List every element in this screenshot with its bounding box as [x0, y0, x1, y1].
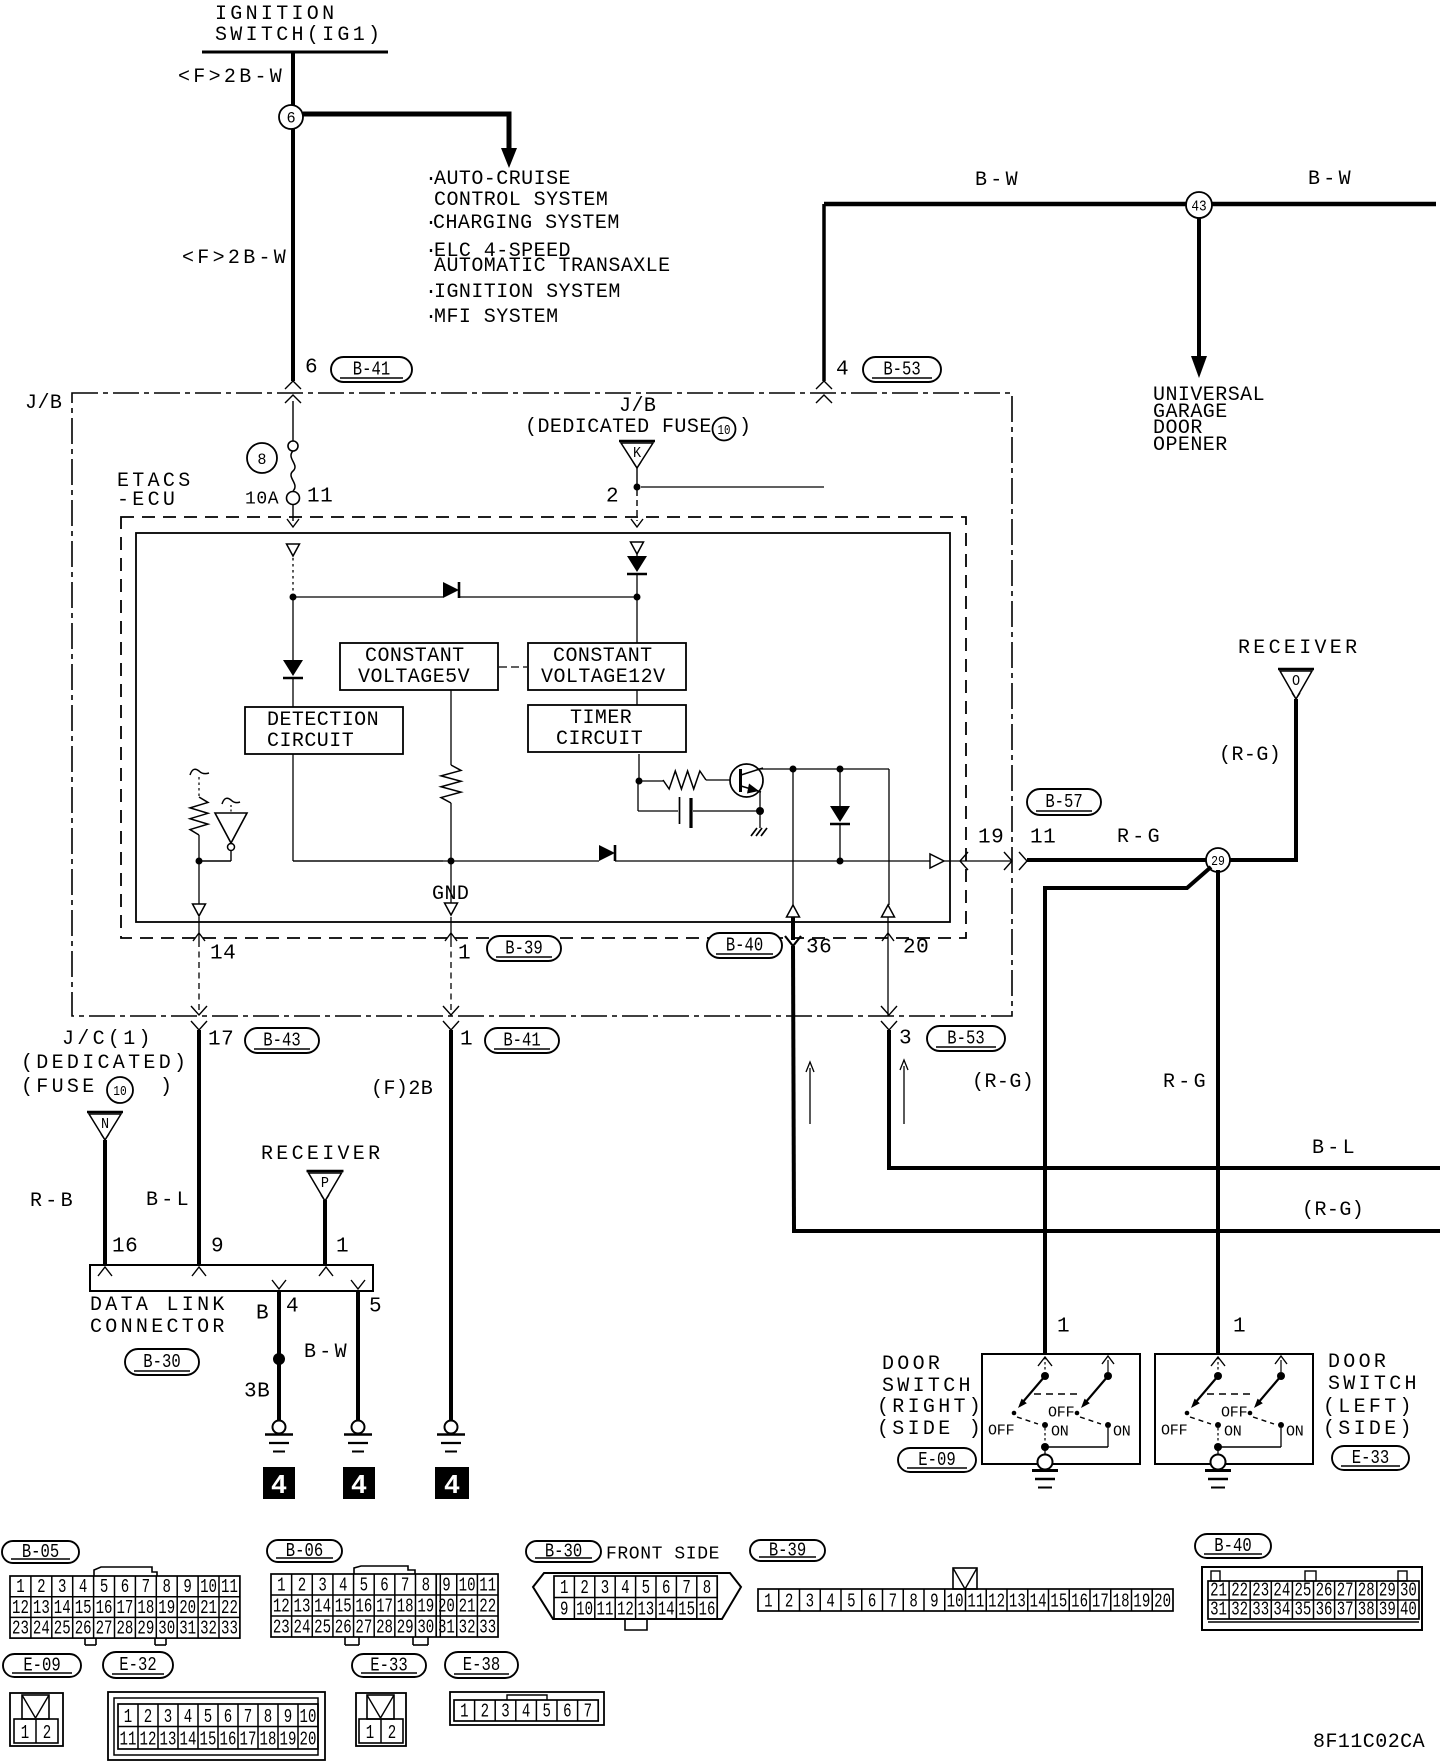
svg-text:20: 20 — [179, 1598, 196, 1620]
resistor R1 with curl — [190, 769, 209, 861]
door switch left side — [1155, 1354, 1313, 1488]
svg-text:9: 9 — [211, 1235, 224, 1258]
svg-text:1: 1 — [277, 1576, 285, 1598]
ignition switch (IG1) label — [202, 3, 388, 52]
wire DLC4 to ground — [277, 1291, 281, 1421]
connector label E-38 — [445, 1652, 518, 1678]
connector B-30 pinout — [533, 1573, 741, 1630]
svg-text:16: 16 — [220, 1730, 237, 1752]
wire R-G bottom run — [792, 1229, 1440, 1231]
wire label <F>2B-W upper — [178, 66, 285, 89]
svg-text:): ) — [739, 416, 751, 439]
svg-text:1: 1 — [458, 942, 471, 965]
svg-text:J/B: J/B — [619, 395, 656, 418]
connector label B-06 — [267, 1540, 342, 1563]
ECU inner box — [136, 533, 950, 922]
connector B-39 key — [953, 1568, 977, 1589]
svg-text:5: 5 — [847, 1592, 855, 1614]
svg-text:22: 22 — [479, 1597, 496, 1619]
junction block J/B box — [72, 393, 1012, 1016]
svg-text:OFF: OFF — [1048, 1404, 1074, 1421]
pin 17 label — [208, 1028, 234, 1051]
svg-text:29: 29 — [397, 1618, 414, 1640]
svg-text:TIMER: TIMER — [570, 707, 632, 730]
J/B dedicated fuse label right — [525, 395, 751, 441]
svg-text:9: 9 — [930, 1592, 938, 1614]
svg-text:11: 11 — [120, 1730, 137, 1752]
pin 1 wire — [445, 917, 457, 1010]
wire DLC5 to ground — [356, 1291, 360, 1421]
wire label B-W right — [1308, 168, 1354, 191]
svg-text:E-33: E-33 — [370, 1656, 407, 1677]
svg-text:2: 2 — [606, 485, 619, 508]
svg-text:4: 4 — [184, 1707, 192, 1729]
svg-text:7: 7 — [244, 1707, 252, 1729]
svg-text:15: 15 — [200, 1730, 217, 1752]
universal garage door opener label — [1153, 384, 1265, 457]
svg-text:MFI SYSTEM: MFI SYSTEM — [434, 306, 559, 329]
receiver O fuse triangle — [1278, 669, 1314, 699]
svg-text:34: 34 — [1273, 1600, 1290, 1622]
wire label R-G — [1117, 826, 1163, 849]
node 43 splice — [1186, 192, 1212, 218]
wire resistor to bus — [450, 803, 452, 861]
svg-text:16: 16 — [112, 1235, 138, 1258]
svg-text:2: 2 — [580, 1578, 588, 1600]
ground hatch — [751, 828, 767, 836]
svg-text:5: 5 — [542, 1702, 550, 1724]
svg-text:17: 17 — [1092, 1592, 1109, 1614]
svg-text:3: 3 — [601, 1578, 609, 1600]
pin 14 label — [210, 942, 236, 965]
svg-text:4: 4 — [444, 1472, 460, 1502]
drawing number — [1313, 1731, 1425, 1754]
svg-text:16: 16 — [699, 1600, 716, 1622]
direction arrow — [900, 1060, 908, 1124]
svg-text:11: 11 — [479, 1576, 496, 1598]
svg-text:CHARGING SYSTEM: CHARGING SYSTEM — [433, 212, 620, 235]
front side label — [606, 1544, 720, 1564]
svg-text:DETECTION: DETECTION — [267, 709, 379, 732]
svg-text:(R-G): (R-G) — [1302, 1199, 1364, 1222]
wire label B-W left — [975, 169, 1021, 192]
svg-text:J/B: J/B — [25, 392, 62, 415]
wire label (R-G) receiver — [1219, 744, 1281, 767]
svg-text:ON: ON — [1224, 1423, 1242, 1440]
connector label B-05 — [2, 1541, 79, 1564]
data link connector label — [90, 1294, 228, 1339]
resistor R3 — [638, 771, 731, 789]
connector label B-41 top — [331, 357, 412, 382]
ETACS-ECU label — [117, 470, 194, 512]
svg-text:1: 1 — [560, 1578, 568, 1600]
svg-text:CONSTANT: CONSTANT — [365, 645, 465, 668]
svg-text:38: 38 — [1358, 1600, 1375, 1622]
svg-text:B-W: B-W — [304, 1341, 350, 1364]
svg-text:16: 16 — [1071, 1592, 1088, 1614]
svg-text:DOOR: DOOR — [882, 1353, 943, 1376]
svg-text:7: 7 — [584, 1702, 592, 1724]
svg-text:J/C(1): J/C(1) — [62, 1028, 154, 1051]
svg-text:1: 1 — [460, 1702, 468, 1724]
pin 20 wire — [882, 917, 894, 1016]
dotted wire — [292, 558, 294, 597]
svg-text:12: 12 — [12, 1598, 29, 1620]
ground G2 — [344, 1421, 372, 1452]
svg-text:E-09: E-09 — [23, 1656, 60, 1677]
wire label (F)2B — [371, 1078, 433, 1101]
svg-text:RECEIVER: RECEIVER — [1238, 637, 1360, 660]
constant voltage 5V box — [340, 643, 498, 690]
wire label B-L — [1312, 1137, 1358, 1160]
svg-text:6: 6 — [662, 1578, 670, 1600]
svg-text:18: 18 — [260, 1730, 277, 1752]
svg-text:21: 21 — [200, 1598, 217, 1620]
pin 1 label — [1057, 1315, 1070, 1338]
wire to border — [944, 860, 1012, 862]
node junction — [290, 594, 297, 601]
svg-text:RECEIVER: RECEIVER — [261, 1143, 383, 1166]
svg-text:(RIGHT): (RIGHT) — [877, 1396, 984, 1419]
pin 3 label — [899, 1027, 912, 1050]
svg-text:20: 20 — [1154, 1592, 1171, 1614]
svg-text:14: 14 — [314, 1597, 331, 1619]
wire label B-L left — [146, 1189, 192, 1212]
svg-text:1: 1 — [124, 1707, 132, 1729]
pin 14 wire — [193, 917, 205, 1010]
wire detection to bus — [292, 754, 294, 861]
GND pin triangle — [445, 861, 458, 915]
svg-text:13: 13 — [33, 1598, 50, 1620]
svg-text:23: 23 — [12, 1619, 29, 1641]
svg-text:4: 4 — [826, 1592, 834, 1614]
node junction — [448, 858, 455, 865]
ECU pin 14 output triangle — [193, 861, 206, 916]
svg-text:B: B — [256, 1302, 269, 1325]
svg-text:4: 4 — [271, 1472, 287, 1502]
svg-text:12: 12 — [140, 1730, 157, 1752]
connector label B-39 pinout lbl — [750, 1540, 825, 1562]
crossing at J/B border — [1004, 852, 1027, 870]
ground G3 — [437, 1421, 465, 1452]
svg-text:6: 6 — [121, 1577, 129, 1599]
wire timer to node — [638, 754, 640, 781]
svg-text:20: 20 — [300, 1730, 317, 1752]
svg-text:OPENER: OPENER — [1153, 434, 1228, 457]
svg-text:20: 20 — [438, 1597, 455, 1619]
svg-text:1: 1 — [460, 1028, 473, 1051]
wire pin20 vertical — [888, 769, 890, 905]
svg-text:19: 19 — [158, 1598, 175, 1620]
svg-text:29: 29 — [137, 1619, 154, 1641]
svg-text:13: 13 — [1009, 1592, 1026, 1614]
svg-text:27: 27 — [355, 1618, 372, 1640]
wire B-W horizontal top — [824, 202, 1436, 207]
svg-text:10: 10 — [947, 1592, 964, 1614]
svg-text:3: 3 — [501, 1702, 509, 1724]
svg-text:VOLTAGE5V: VOLTAGE5V — [358, 666, 470, 689]
wire to diode — [293, 596, 443, 598]
svg-text:R-B: R-B — [30, 1190, 76, 1213]
svg-text:32: 32 — [459, 1618, 476, 1640]
svg-text:31: 31 — [1210, 1600, 1227, 1622]
svg-text:IGNITION SYSTEM: IGNITION SYSTEM — [434, 281, 621, 304]
pin 6 label — [305, 356, 318, 379]
direction arrow — [806, 1062, 814, 1124]
svg-text:11: 11 — [221, 1577, 238, 1599]
svg-text:CIRCUIT: CIRCUIT — [556, 728, 643, 751]
svg-text:O: O — [1292, 673, 1300, 690]
output arrow hollow — [930, 854, 944, 868]
svg-text:8: 8 — [163, 1577, 171, 1599]
pin 1 B-41 exit crossing — [443, 1006, 459, 1030]
svg-text:16: 16 — [96, 1598, 113, 1620]
svg-text:(R-G): (R-G) — [972, 1071, 1034, 1094]
door switch left side labels — [1323, 1351, 1420, 1441]
wire 17 to DLC pin9 — [197, 1030, 201, 1265]
wire diode to node — [459, 596, 637, 598]
svg-text:B-06: B-06 — [286, 1542, 323, 1563]
svg-text:2: 2 — [144, 1707, 152, 1729]
diode D4 down — [830, 769, 850, 861]
svg-text:N: N — [101, 1116, 109, 1133]
GND label — [432, 883, 469, 906]
svg-text:12: 12 — [617, 1600, 634, 1622]
svg-text:3: 3 — [58, 1577, 66, 1599]
svg-text:36: 36 — [806, 936, 832, 959]
pin 17 exit crossing — [191, 1006, 207, 1030]
data link connector box — [90, 1265, 373, 1291]
pin 4 crossing into J/B — [816, 381, 832, 403]
ECU pin 20 triangle — [882, 905, 895, 917]
wire B-41 to ground — [449, 1030, 453, 1421]
svg-text:31: 31 — [179, 1619, 196, 1641]
svg-text:12: 12 — [273, 1597, 290, 1619]
wire R-G thick to node 29 — [1027, 858, 1206, 862]
svg-text:B-39: B-39 — [769, 1541, 806, 1562]
dedicated fuse K — [606, 441, 824, 527]
connector label B-40 — [707, 933, 782, 958]
svg-text:10A: 10A — [245, 489, 279, 509]
connector E-32 pinout — [108, 1692, 325, 1760]
pin 4 label — [836, 358, 849, 381]
pin 1 label — [460, 1028, 473, 1051]
svg-text:6: 6 — [563, 1702, 571, 1724]
svg-text:32: 32 — [1231, 1600, 1248, 1622]
ground G1 — [265, 1421, 293, 1452]
svg-text:OFF: OFF — [988, 1422, 1014, 1439]
svg-text:AUTOMATIC TRANSAXLE: AUTOMATIC TRANSAXLE — [434, 255, 671, 278]
connector label B-30 — [125, 1349, 199, 1375]
node junction — [196, 858, 203, 865]
svg-text:VOLTAGE12V: VOLTAGE12V — [541, 666, 666, 689]
connector label B-40 doors — [1195, 1534, 1271, 1558]
svg-text:7: 7 — [142, 1577, 150, 1599]
ground ref 4 — [343, 1467, 375, 1502]
svg-text:19: 19 — [417, 1597, 434, 1619]
connector label B-30 front — [526, 1541, 601, 1563]
wire B-W corner down to B-53 — [822, 204, 826, 381]
svg-text:7: 7 — [682, 1578, 690, 1600]
wire label R-G mid — [1163, 1071, 1209, 1094]
svg-text:1: 1 — [16, 1577, 24, 1599]
wire node29 to receiver corner — [1230, 699, 1296, 862]
wire label (R-G) mid — [972, 1071, 1034, 1094]
svg-text:15: 15 — [75, 1598, 92, 1620]
svg-text:IGNITION: IGNITION — [215, 3, 337, 26]
wire P to DLC pin1 — [323, 1200, 327, 1265]
svg-text:17: 17 — [208, 1028, 234, 1051]
svg-text:8: 8 — [422, 1576, 430, 1598]
svg-text:40: 40 — [1400, 1600, 1417, 1622]
receiver fuse P — [307, 1171, 344, 1201]
svg-text:26: 26 — [75, 1619, 92, 1641]
pin 1 label — [336, 1235, 349, 1258]
svg-text:17: 17 — [117, 1598, 134, 1620]
svg-text:ON: ON — [1113, 1423, 1131, 1440]
svg-text:27: 27 — [96, 1619, 113, 1641]
connector label E-33 — [1332, 1446, 1409, 1470]
connector label B-43 — [245, 1028, 319, 1053]
wire branch to systems arrow — [303, 114, 517, 168]
ETACS-ECU dashed box — [121, 517, 966, 938]
svg-text:17: 17 — [376, 1597, 393, 1619]
pin 1 label — [458, 942, 471, 965]
svg-text:(DEDICATED FUSE: (DEDICATED FUSE — [525, 416, 712, 439]
svg-text:(DEDICATED): (DEDICATED) — [21, 1052, 189, 1075]
ground ref 4 — [435, 1467, 469, 1502]
svg-text:B-W: B-W — [975, 169, 1021, 192]
connector E-38 pinout — [450, 1692, 604, 1725]
svg-text:CIRCUIT: CIRCUIT — [267, 730, 354, 753]
wire label (R-G) bottom — [1302, 1199, 1364, 1222]
pin 3 exit crossing — [881, 1006, 897, 1030]
svg-text:33: 33 — [221, 1619, 238, 1641]
svg-text:<F>2B-W: <F>2B-W — [182, 247, 289, 270]
svg-text:33: 33 — [479, 1618, 496, 1640]
ECU pin 11 input triangle — [287, 544, 300, 556]
svg-text:1: 1 — [764, 1592, 772, 1614]
connector E-33 pinout — [356, 1693, 406, 1746]
svg-text:35: 35 — [1295, 1600, 1312, 1622]
svg-text:6: 6 — [224, 1707, 232, 1729]
svg-text:3: 3 — [164, 1707, 172, 1729]
wire to 12V box — [636, 575, 638, 643]
svg-text:DATA LINK: DATA LINK — [90, 1294, 228, 1317]
svg-text:B-05: B-05 — [22, 1543, 59, 1564]
ECU pin 36 triangle — [787, 905, 800, 917]
wire down to garage opener — [1191, 218, 1207, 378]
timer circuit box — [528, 705, 686, 752]
svg-text:31: 31 — [438, 1618, 455, 1640]
svg-text:(FUSE: (FUSE — [21, 1076, 98, 1099]
pin 36 label — [806, 936, 832, 959]
receiver label — [1238, 637, 1360, 660]
pin 16 label — [112, 1235, 138, 1258]
svg-text:29: 29 — [1211, 854, 1225, 869]
connector label B-39 — [487, 936, 561, 961]
svg-text:19: 19 — [978, 826, 1004, 849]
comparator T1 triangle — [199, 798, 247, 861]
svg-text:B-L: B-L — [146, 1189, 192, 1212]
dedicated fuse N — [87, 1112, 123, 1140]
svg-text:11: 11 — [1030, 826, 1056, 849]
svg-text:15: 15 — [678, 1600, 695, 1622]
J/C(1) dedicated fuse label — [21, 1028, 189, 1103]
svg-text:ON: ON — [1286, 1423, 1304, 1440]
wire label 3B — [244, 1380, 270, 1403]
diode D1 right — [443, 582, 459, 598]
svg-text:ON: ON — [1051, 1423, 1069, 1440]
svg-text:FRONT SIDE: FRONT SIDE — [606, 1544, 720, 1564]
svg-text:17: 17 — [240, 1730, 257, 1752]
wire bus — [293, 860, 930, 862]
wire label B — [256, 1302, 269, 1325]
svg-text:8: 8 — [264, 1707, 272, 1729]
svg-text:8: 8 — [703, 1578, 711, 1600]
J/B label left — [25, 392, 62, 415]
svg-text:18: 18 — [397, 1597, 414, 1619]
link 5V-12V — [499, 666, 527, 668]
svg-text:1: 1 — [21, 1723, 29, 1745]
svg-text:CONTROL SYSTEM: CONTROL SYSTEM — [434, 189, 608, 212]
svg-text:AUTO-CRUISE: AUTO-CRUISE — [434, 168, 571, 191]
svg-text:21: 21 — [459, 1597, 476, 1619]
svg-text:6: 6 — [380, 1576, 388, 1598]
node junction — [837, 858, 844, 865]
connector label E-09 pinout lbl — [3, 1654, 81, 1677]
svg-text:10: 10 — [718, 423, 731, 438]
svg-text:2: 2 — [481, 1702, 489, 1724]
svg-text:14: 14 — [1030, 1592, 1047, 1614]
connector label B-53 bottom — [927, 1026, 1005, 1051]
svg-text:2: 2 — [43, 1723, 51, 1745]
pin 5 label — [369, 1295, 382, 1318]
ground ref 4 — [263, 1467, 295, 1502]
svg-text:10: 10 — [113, 1083, 126, 1100]
connector label B-53 top — [863, 357, 941, 382]
svg-text:10: 10 — [459, 1576, 476, 1598]
svg-text:SWITCH: SWITCH — [1328, 1373, 1420, 1396]
svg-text:4: 4 — [79, 1577, 87, 1599]
svg-text:30: 30 — [158, 1619, 175, 1641]
svg-text:36: 36 — [1316, 1600, 1333, 1622]
diode D5 right — [599, 845, 615, 861]
node 29 splice — [1206, 848, 1230, 872]
svg-text:4: 4 — [286, 1295, 299, 1318]
svg-text:(F)2B: (F)2B — [371, 1078, 433, 1101]
svg-text:24: 24 — [33, 1619, 50, 1641]
detection circuit box — [245, 707, 403, 754]
svg-text:<F>2B-W: <F>2B-W — [178, 66, 285, 89]
svg-text:12: 12 — [988, 1592, 1005, 1614]
svg-text:22: 22 — [221, 1598, 238, 1620]
door switch right side — [982, 1354, 1140, 1488]
svg-text:R-G: R-G — [1117, 826, 1163, 849]
svg-text:(SIDE ): (SIDE ) — [877, 1418, 984, 1441]
wire label R-B — [30, 1190, 76, 1213]
connector B-05 pinout — [10, 1567, 240, 1645]
svg-text:16: 16 — [355, 1597, 372, 1619]
svg-text:43: 43 — [1191, 199, 1206, 216]
svg-text:14: 14 — [658, 1600, 675, 1622]
svg-text:2: 2 — [388, 1723, 396, 1745]
svg-text:4: 4 — [621, 1578, 629, 1600]
door switch right side labels — [877, 1353, 984, 1441]
svg-text:25: 25 — [314, 1618, 331, 1640]
svg-text:OFF: OFF — [1221, 1404, 1247, 1421]
svg-text:9: 9 — [183, 1577, 191, 1599]
